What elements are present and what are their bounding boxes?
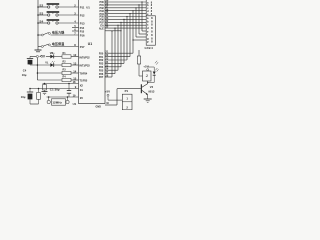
wire bus vertical 11	[141, 2, 143, 31]
svg-text:P12: P12	[80, 14, 85, 18]
wire display feed row y37	[136, 36, 146, 38]
wire row1 left	[46, 56, 50, 58]
svg-text:12B4: 12B4	[144, 46, 153, 50]
svg-text:10μ: 10μ	[21, 95, 26, 99]
wire reset bottom	[30, 103, 39, 105]
wire display feed row y34	[139, 33, 146, 35]
svg-text:V2: V2	[150, 85, 154, 89]
display DS1 box	[146, 16, 155, 45]
svg-text:VL: VL	[45, 62, 49, 65]
diode VL2	[50, 63, 53, 67]
wire bus vertical 7	[129, 14, 131, 57]
wire S5 to U1 pin 7	[51, 34, 79, 36]
diode VD1	[50, 55, 53, 59]
svg-text:+5V: +5V	[105, 89, 110, 93]
wire P25 row	[105, 69, 118, 71]
wire S6 to U1 pin 8	[51, 46, 79, 48]
node +5V terminal P1	[107, 94, 109, 96]
wire bus vertical 4	[120, 22, 122, 67]
wire base	[117, 88, 141, 90]
wire S3 left	[38, 14, 48, 16]
resistor R2	[62, 63, 71, 66]
LED VL5	[153, 67, 155, 71]
ground	[44, 90, 46, 91]
capacitor C4	[29, 57, 31, 59]
resistor R9	[137, 56, 140, 64]
wire row to U1 pin 12	[71, 56, 79, 58]
node +5V terminal relay	[147, 69, 149, 71]
wire bus vertical 9	[135, 8, 137, 37]
wire P07 row	[105, 21, 146, 23]
wire P01 row	[105, 4, 146, 6]
pushbutton switch S3	[48, 14, 50, 16]
node +5V terminal	[30, 56, 36, 58]
resistor R4	[62, 78, 71, 81]
wire S4 left	[38, 22, 48, 24]
wire ALE row	[105, 27, 146, 29]
wire P23 row	[105, 62, 124, 64]
wire XTAL2 row	[43, 83, 79, 85]
switch S6	[41, 46, 43, 48]
svg-text:T0/P34: T0/P34	[80, 72, 88, 75]
ground	[37, 47, 39, 51]
pin stub P15	[72, 30, 79, 32]
connector P1 box	[122, 94, 132, 110]
wire P24 row	[105, 66, 121, 68]
svg-text:U1: U1	[86, 6, 90, 10]
switch S5	[41, 34, 43, 36]
svg-text:U1: U1	[73, 102, 77, 106]
wire row to U1 pin 15	[71, 79, 79, 81]
wire S3 to U1 pin 3	[58, 14, 79, 16]
svg-text:P27: P27	[99, 76, 104, 79]
svg-text:+5V: +5V	[143, 64, 148, 68]
wire row4 left	[37, 79, 62, 81]
wire P21 row	[105, 56, 130, 58]
svg-text:13: 13	[73, 61, 76, 65]
svg-text:INT1/P33: INT1/P33	[80, 64, 91, 67]
node rail junction S5	[37, 34, 39, 36]
svg-text:10μ: 10μ	[22, 73, 27, 77]
wire base vertical	[116, 89, 118, 105]
wire S4 to U1 pin 4	[58, 22, 79, 24]
svg-text:P17: P17	[80, 45, 85, 49]
wire bus vertical 3	[117, 25, 119, 70]
resistor R0	[38, 88, 40, 90]
svg-text:J: J	[146, 74, 148, 78]
wire bus vertical 1	[111, 31, 113, 77]
resistor R1	[62, 55, 71, 58]
wire row to U1 pin 14	[71, 72, 79, 74]
svg-text:U1: U1	[88, 42, 92, 46]
wire +5V rail	[36, 58, 38, 80]
wire P20 row	[105, 52, 133, 54]
ground	[144, 98, 152, 100]
svg-text:f: f	[147, 33, 148, 37]
svg-text:S2: S2	[39, 3, 43, 7]
wire bus vertical 2	[114, 28, 116, 74]
led arrows	[52, 61, 53, 62]
wire S2 left	[38, 6, 48, 8]
wire bus vertical 6	[126, 17, 128, 61]
svg-text:P1: P1	[125, 89, 129, 93]
wire pin10 row	[105, 104, 117, 106]
wire bus vertical 8	[132, 11, 134, 54]
capacitor C1	[68, 83, 70, 85]
wire segment bus end line	[145, 0, 147, 16]
wire P22 row	[105, 59, 127, 61]
pin stub P14	[72, 27, 79, 29]
pin stub PSEN	[105, 30, 121, 32]
wire S2 to U1 pin 2	[58, 6, 79, 8]
node rail junction S2	[37, 6, 39, 8]
wire P26 row	[105, 73, 115, 75]
wire P03 row	[105, 10, 146, 12]
node rail junction row2	[37, 64, 39, 66]
wire S6 left	[38, 46, 41, 48]
svg-text:14: 14	[73, 69, 76, 73]
pushbutton switch S2	[48, 6, 50, 8]
wire ground rail	[37, 0, 39, 47]
svg-text:VD: VD	[50, 52, 54, 55]
svg-text:+5V: +5V	[39, 55, 46, 59]
transistor V2	[141, 84, 142, 93]
node rail junction row3	[37, 72, 39, 74]
wire RST row	[30, 88, 79, 90]
svg-text:电压保温: 电压保温	[52, 41, 65, 46]
wire row2 left	[30, 64, 50, 66]
svg-text:C4: C4	[23, 69, 27, 73]
wire bus vertical 5	[123, 19, 125, 63]
svg-text:S3: S3	[39, 11, 43, 15]
wire row to U1 pin 13	[71, 64, 79, 66]
svg-text:ALE: ALE	[99, 27, 104, 30]
svg-text:X2: X2	[80, 84, 84, 88]
wire led bottom	[148, 82, 155, 84]
wire display feed row y40	[133, 39, 146, 41]
svg-text:9013: 9013	[148, 89, 154, 93]
wire display feed row y31	[142, 30, 146, 32]
wire S5 left	[38, 34, 41, 36]
svg-text:T1/P35: T1/P35	[80, 79, 88, 82]
wire XTAL1 row	[47, 96, 79, 98]
node rail junction S4	[37, 22, 39, 24]
wire relay feed	[138, 50, 140, 56]
wire row3 left	[37, 72, 62, 74]
svg-text:P13: P13	[80, 22, 85, 26]
pushbutton switch S4	[48, 22, 50, 24]
svg-text:15: 15	[73, 76, 76, 80]
svg-text:S4: S4	[39, 19, 43, 23]
svg-text:X1: X1	[80, 88, 84, 92]
svg-text:P15: P15	[80, 30, 85, 33]
IC U1 box	[79, 0, 106, 104]
wire P02 row	[105, 7, 146, 9]
wire P05 row	[105, 16, 146, 18]
svg-text:INT0/P32: INT0/P32	[80, 56, 91, 59]
resistor R3	[62, 71, 71, 74]
svg-text:P11: P11	[80, 6, 85, 10]
crystal Y1 12MHz	[48, 96, 50, 98]
wire P27 row	[105, 76, 112, 78]
led arrows	[155, 68, 157, 70]
wire EA row	[105, 24, 146, 26]
svg-text:12MHz: 12MHz	[52, 101, 62, 105]
svg-text:电压力锅: 电压力锅	[52, 30, 64, 35]
wire P00 row	[105, 1, 146, 3]
led arrows	[52, 53, 53, 54]
wire P06 row	[105, 18, 146, 20]
wire relay to collector	[147, 81, 149, 84]
capacitor C3 electrolytic	[29, 88, 31, 90]
svg-text:P16: P16	[80, 33, 85, 37]
relay J box	[143, 71, 152, 81]
wire to P1	[107, 96, 109, 100]
svg-text:12: 12	[73, 53, 76, 57]
svg-text:GND: GND	[96, 106, 102, 109]
node rail junction S3	[37, 14, 39, 16]
wire P04 row	[105, 13, 146, 15]
svg-text:C1 30p: C1 30p	[50, 87, 60, 91]
wire led top	[148, 66, 155, 68]
capacitor C2	[44, 83, 46, 85]
wire bus vertical 10	[138, 5, 140, 34]
